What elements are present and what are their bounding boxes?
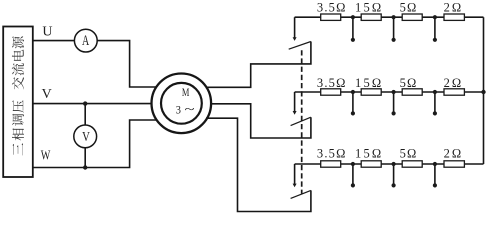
svg-text:3.5Ω: 3.5Ω (317, 1, 347, 15)
svg-text:3.5Ω: 3.5Ω (317, 76, 347, 90)
svg-text:M: M (182, 85, 190, 99)
svg-text:2Ω: 2Ω (444, 147, 464, 161)
svg-text:A: A (82, 33, 90, 49)
svg-text:3: 3 (176, 102, 181, 116)
svg-text:15Ω: 15Ω (355, 76, 383, 90)
svg-text:V: V (42, 87, 52, 102)
svg-text:U: U (42, 24, 52, 39)
svg-text:3.5Ω: 3.5Ω (317, 147, 347, 161)
svg-text:2Ω: 2Ω (444, 76, 464, 90)
svg-text:5Ω: 5Ω (400, 1, 418, 15)
svg-text:15Ω: 15Ω (355, 147, 383, 161)
svg-text:5Ω: 5Ω (400, 147, 418, 161)
svg-text:W: W (41, 149, 51, 164)
svg-text:2Ω: 2Ω (444, 1, 464, 15)
svg-text:~: ~ (185, 101, 195, 116)
svg-text:V: V (82, 130, 90, 145)
svg-text:5Ω: 5Ω (400, 76, 418, 90)
svg-text:15Ω: 15Ω (355, 1, 383, 15)
